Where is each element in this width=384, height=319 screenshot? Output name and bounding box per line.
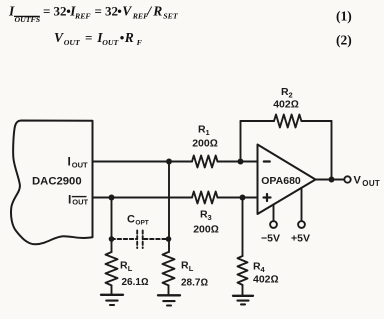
capacitor COPT dashed left lead [112,238,137,240]
svg-text:=: = [95,4,102,19]
pin label IOUT [68,155,89,170]
wire IOUT from DAC to R1 [93,161,193,163]
svg-text:V: V [354,175,362,187]
svg-text:402Ω: 402Ω [273,99,299,111]
svg-text:OUT: OUT [72,198,88,207]
resistor RL2 28.7 [163,252,175,285]
junction dot IOUT load branch [166,159,172,165]
svg-text:3: 3 [208,213,212,222]
svg-text:28.7Ω: 28.7Ω [181,278,208,289]
label RL1 [120,260,133,274]
terminal -5V circle [270,221,277,228]
svg-text:32: 32 [105,4,118,19]
label +5V [291,233,310,245]
svg-text:R: R [120,260,128,272]
svg-text:26.1Ω: 26.1Ω [122,277,149,288]
capacitor COPT right plate [142,231,144,249]
svg-text:L: L [128,264,133,273]
svg-text:R: R [152,4,162,19]
wire RL2 to ground [168,286,170,296]
resistor R2 [274,115,301,128]
wire negative supply stub [273,205,275,221]
terminal +5V circle [298,221,305,228]
svg-text:OUT: OUT [102,38,119,47]
svg-text:L: L [189,264,194,273]
value label RL1 26.1 ohm [122,277,149,288]
svg-text:1: 1 [206,128,210,137]
wire R3 to op-amp non-inverting input [218,197,258,199]
svg-text:REF: REF [74,12,91,21]
label -5V [261,233,280,245]
wire feedback top left segment [241,120,275,122]
wire feedback top right segment [302,120,332,122]
resistor R4 [238,256,248,285]
svg-text:32: 32 [54,4,67,19]
svg-text:F: F [137,38,143,47]
svg-text:I: I [68,193,71,207]
label R4 [253,261,266,275]
equation number 2 [336,33,352,48]
svg-text:(2): (2) [336,33,352,48]
resistor R1 [192,156,217,168]
svg-text:OUT: OUT [72,161,88,170]
value label R4 402 ohm [253,274,279,286]
value label R2 402 ohm [273,99,299,111]
terminal VOUT circle [344,176,350,182]
equation number 1 [336,9,352,24]
capacitor COPT left plate [136,231,138,249]
ground under R4 [233,296,253,305]
svg-text:402Ω: 402Ω [253,274,279,286]
svg-text:(1): (1) [336,9,352,24]
svg-text:R: R [124,30,134,45]
resistor RL1 26.1 [106,252,118,285]
junction dot output node [329,177,335,183]
label R1 [198,124,210,138]
wire feedback right vertical to output node [331,121,333,180]
svg-text:V: V [122,4,132,19]
wire positive supply stub [301,188,303,221]
svg-text:/: / [146,5,152,20]
value label RL2 28.7 ohm [181,278,208,289]
DAC2900 block [11,121,92,245]
label R2 [281,86,293,100]
wire IOUT load branch vertical [168,162,170,253]
wire op-amp output [316,179,345,181]
label R3 [200,209,212,223]
value label R1 200 ohm [192,138,218,150]
svg-text:−5V: −5V [261,233,280,245]
svg-text:=: = [43,4,50,19]
junction dot COPT right [166,236,172,242]
wire R4 to ground [242,285,244,295]
svg-text:OUT: OUT [362,179,380,188]
svg-text:V: V [54,30,64,45]
svg-text:R: R [181,260,189,272]
svg-text:OPT: OPT [135,220,148,227]
svg-text:DAC2900: DAC2900 [32,176,82,188]
capacitor COPT dashed right lead [144,238,169,240]
wire feedback left vertical from inverting input node [240,121,242,162]
op-amp inverting pin minus sign [264,160,270,162]
pin label IOUTB with overbar [68,193,89,207]
ground under RL2 [158,295,180,305]
node label VOUT [354,175,381,188]
label DAC2900 [32,176,82,188]
label COPT [127,214,149,227]
wire non-inverting node down to R4 [242,198,244,257]
wire IOUTB from DAC to R3 [93,197,193,199]
svg-text:OUT: OUT [64,38,81,47]
value label R3 200 ohm [193,224,219,236]
wire RL1 to ground [111,286,113,295]
svg-text:+5V: +5V [291,233,310,245]
junction dot non-inverting node [240,195,246,201]
wire R1 to op-amp inverting input [218,161,258,163]
label RL2 [181,260,194,274]
wire IOUTB load branch vertical [111,198,113,253]
label OPA680 [261,175,301,187]
equation 2 [54,30,143,47]
svg-text:=: = [85,30,92,45]
equation 1 [8,4,179,25]
junction dot inverting node [238,159,244,165]
op-amp U1 OPA680 triangle [258,145,316,215]
svg-text:200Ω: 200Ω [192,138,218,150]
ground under RL1 [101,295,123,305]
junction dot IOUTB load branch [109,195,115,201]
svg-text:OPA680: OPA680 [261,175,301,187]
svg-text:SET: SET [163,12,179,21]
svg-text:200Ω: 200Ω [193,224,219,236]
svg-text:I: I [68,155,71,169]
op-amp non-inverting pin plus sign [264,194,271,201]
resistor R3 [192,192,217,204]
junction dot COPT left [109,236,115,242]
svg-text:C: C [127,214,135,226]
